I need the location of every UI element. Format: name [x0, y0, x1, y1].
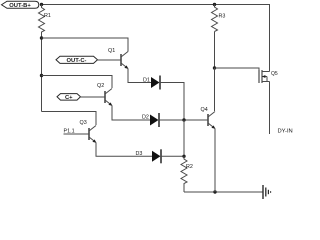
junction left rail upper — [40, 36, 43, 39]
diode D2 — [142, 113, 159, 127]
transistor Q5 (MOSFET) — [259, 70, 278, 83]
wire D1 cathode to diode rail — [160, 83, 184, 121]
wire Q4 emitter to bottom rail — [214, 129, 216, 193]
svg-text:C+: C+ — [65, 95, 73, 101]
wire to Q1 collector — [42, 38, 129, 52]
svg-text:D3: D3 — [136, 151, 143, 157]
wire D3 cathode to diode rail — [161, 155, 184, 157]
transistor Q1 — [108, 48, 128, 69]
net flag OUT-C- — [56, 56, 98, 64]
resistor R1 — [39, 5, 51, 39]
diode D1 — [143, 76, 160, 90]
wire D2 cathode to Q4 base — [159, 119, 208, 121]
wire Q5 source to DY-IN — [269, 82, 271, 135]
svg-text:Q4: Q4 — [201, 107, 208, 113]
wire P1.1 stub to Q3 base — [64, 133, 90, 135]
transistor Q2 — [97, 83, 112, 106]
wire C+ to Q2 base — [81, 96, 106, 98]
junction at R3 top — [213, 3, 216, 6]
net flag C+ — [57, 94, 81, 101]
svg-text:Q2: Q2 — [97, 83, 104, 89]
wire top rail — [42, 5, 270, 72]
wire left rail — [41, 38, 43, 112]
svg-text:Q1: Q1 — [108, 48, 115, 54]
junction at flag OUT-B+ — [40, 3, 43, 6]
svg-text:Q5: Q5 — [271, 71, 278, 77]
svg-text:R1: R1 — [44, 13, 51, 19]
wire R3 to junction — [214, 32, 216, 69]
wire to Q5 gate — [215, 68, 260, 70]
transistor Q3 — [80, 120, 97, 143]
junction left rail lower — [40, 74, 43, 77]
wire Q3 emitter to D3 — [96, 143, 152, 157]
transistor Q4 — [201, 107, 216, 129]
svg-text:OUT-C-: OUT-C- — [67, 58, 87, 64]
svg-text:R2: R2 — [186, 164, 193, 170]
diode D3 — [136, 149, 162, 163]
net flag OUT-B+ — [2, 1, 39, 9]
resistor R2 — [181, 156, 193, 192]
svg-text:R3: R3 — [219, 14, 226, 20]
svg-text:OUT-B+: OUT-B+ — [9, 3, 31, 9]
wire to Q4 collector — [214, 68, 216, 111]
junction diode rail at D2 — [182, 118, 185, 121]
wire diode rail down — [183, 120, 185, 156]
wire Q2 emitter to D2 — [112, 106, 150, 121]
svg-text:D1: D1 — [143, 78, 150, 84]
wire OUT-C- to Q1 base — [98, 59, 122, 61]
junction R3 / Q4 collector / Q5 gate — [213, 66, 216, 69]
ground — [263, 185, 271, 199]
svg-text:D2: D2 — [142, 115, 149, 121]
junction diode rail at D3/R2 — [182, 155, 185, 158]
junction bottom rail — [213, 190, 216, 193]
svg-text:DY-IN: DY-IN — [278, 129, 293, 135]
wire to Q2 collector — [42, 76, 113, 89]
wire bottom rail — [184, 191, 263, 193]
wire to Q3 collector — [42, 112, 97, 126]
svg-text:Q3: Q3 — [80, 120, 87, 126]
wire Q1 emitter to D1 — [128, 69, 151, 83]
resistor R3 — [212, 5, 226, 32]
